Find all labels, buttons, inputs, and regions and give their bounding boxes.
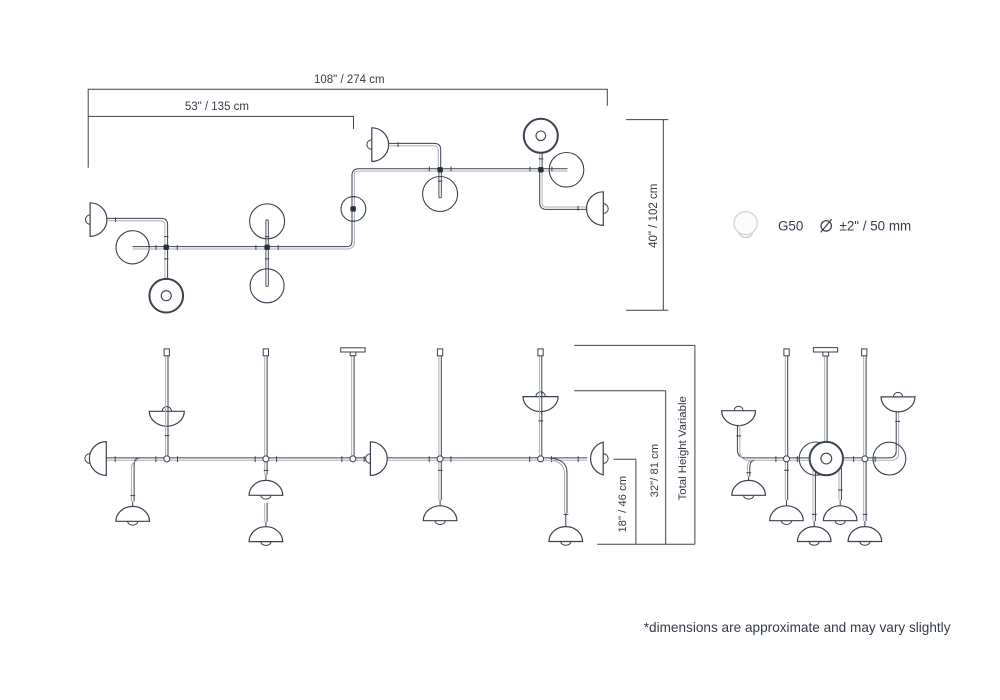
bulb bump S4 (435, 521, 445, 525)
junction ring S4 (437, 456, 443, 462)
arm A1 elbow and drop (tube) (134, 458, 140, 502)
svg-text:±2" / 50 mm: ±2" / 50 mm (840, 219, 912, 234)
stem S5 (tube) (541, 356, 543, 462)
bulb of rail dome E-M (366, 454, 375, 463)
junction ring SSL (784, 456, 790, 462)
tick on stem D (539, 158, 544, 160)
left drop elbow (tube) (750, 460, 754, 476)
canopy collar center (823, 352, 829, 356)
bulb bump A2 (561, 542, 571, 546)
bulb neck S2a (265, 475, 267, 480)
tick on stem a (812, 513, 817, 515)
dome P4 (thick circle with inner) (524, 119, 558, 153)
dome E-M on rail (arc right) (370, 442, 387, 476)
bulb neck stem a (813, 521, 815, 526)
stem S1 over dome (167, 406, 169, 430)
bulb neck A1 (132, 502, 134, 508)
lower rail (tube) (133, 169, 568, 247)
inner circle of center dome (821, 453, 832, 464)
top cap SSR (862, 349, 867, 356)
arm from dome P3 down to junction C (tube) (389, 143, 441, 167)
arm from junction D down-right to dome P5 (tube) (540, 173, 588, 210)
inner circle of dome P4 (536, 131, 546, 141)
stem S2 (tube) (266, 356, 268, 475)
stem SSL (tube) (787, 356, 789, 500)
dimension 18in (614, 459, 636, 544)
globe G3 below junction B (250, 269, 284, 303)
globe G1 on rail (116, 231, 149, 264)
canopy plate (341, 348, 365, 352)
bulb of dome P3 (367, 140, 376, 149)
down dome S4 (423, 506, 457, 521)
svg-text:Total Height Variable: Total Height Variable (677, 396, 689, 500)
rod up through globe G2 (266, 220, 268, 248)
tick on left drop (746, 472, 751, 474)
down dome SSR (848, 527, 882, 542)
tick on arm P1 (115, 217, 117, 222)
connector stem S2 between domes (266, 503, 268, 522)
top cap SSL (784, 349, 789, 356)
canopy stem S3 (tube) (353, 356, 355, 458)
tick on left arm (736, 435, 741, 437)
dome E-L (rail left end, arc left) (89, 442, 106, 476)
tick on stem S1 (165, 435, 170, 437)
FOOTNOTE (644, 620, 951, 635)
globe G4 at rail end (549, 153, 584, 188)
arm from dome P1 to junction A (tube) (107, 218, 168, 279)
stem S1 (tube) (167, 356, 169, 462)
LEGEND (734, 212, 911, 238)
svg-text:18" / 46 cm: 18" / 46 cm (617, 476, 629, 533)
top cap S5 (538, 349, 543, 356)
bulb bump SSL (781, 521, 791, 525)
pendant stem a below center (tube) (814, 470, 816, 521)
stem up from junction D to dome P4 (tube) (541, 153, 543, 170)
dimension total height (574, 345, 695, 544)
down dome SSL (770, 506, 804, 521)
center dome (thick circle) (810, 442, 843, 475)
bulb bump S2a (261, 495, 271, 499)
dome E-R (rail right end, arc left) (591, 442, 604, 475)
down dome a (797, 527, 831, 542)
up dome SL (722, 406, 756, 425)
dome P3 (upper middle, arc right) (372, 128, 389, 162)
bulb bump b (835, 521, 845, 525)
down dome A2 (549, 527, 583, 542)
ticks on lower rail (156, 245, 278, 250)
tick on stem SSR (863, 513, 868, 515)
bulb bump S2b (261, 542, 271, 546)
bulb bump SSR (860, 542, 870, 546)
tick on stem S2 (264, 469, 269, 471)
top cap S2 (263, 349, 268, 356)
svg-text:108" / 274 cm: 108" / 274 cm (314, 74, 385, 86)
junction on riser (350, 206, 356, 212)
G50 bulb icon globe (734, 212, 757, 235)
bulb bump SL2 (744, 495, 754, 499)
diameter symbol (821, 221, 831, 231)
bulb neck SSR (864, 521, 866, 526)
top cap S1 (164, 349, 169, 356)
globe SR right (873, 442, 906, 475)
bulb bump A1 (128, 521, 138, 525)
ticks on upper rail (429, 167, 552, 172)
canopy stem center (tube) (826, 356, 828, 443)
SIDE VIEW (722, 348, 915, 546)
canopy plate center (813, 348, 837, 352)
junction C (437, 167, 443, 173)
down dome SL2 (732, 480, 766, 495)
junction ring S1 (164, 456, 170, 462)
tick on right arm (895, 420, 900, 422)
up dome SR (881, 392, 915, 412)
tick on stem b (838, 489, 843, 491)
bulb of dome E-R (599, 454, 609, 464)
dome P2 (plan of down dome, thick circle) (149, 279, 183, 313)
tick on stem S5 (538, 420, 543, 422)
canopy collar (350, 352, 356, 356)
svg-text:32"/ 81 cm: 32"/ 81 cm (649, 444, 661, 498)
inner circle of dome P2 (161, 291, 171, 301)
dimension 108in bracket (88, 89, 607, 168)
ticks on rods at junction B (265, 237, 269, 259)
junction ring S3 (350, 456, 356, 462)
PLAN VIEW (86, 74, 669, 313)
side rail (tube) (746, 412, 896, 458)
bulb bump a (809, 542, 819, 546)
dimension 32in (574, 391, 666, 545)
tick on arm A1 (130, 495, 135, 497)
globe G2 above junction B (250, 204, 285, 239)
bulb neck S4 (439, 500, 441, 505)
rod down through globe G3 (266, 247, 268, 287)
svg-text:40" / 102 cm: 40" / 102 cm (648, 184, 660, 248)
pendant stem b below center (tube) (840, 468, 842, 501)
stem SSR (tube) (865, 356, 867, 521)
tick on stem SSL (784, 469, 789, 471)
top cap S4 (437, 349, 442, 356)
junction ring S5 (538, 456, 544, 462)
junction A (164, 245, 170, 251)
down dome S2a (249, 480, 283, 495)
dome P5 (right, arc left) (587, 192, 604, 226)
bulb neck SSL (786, 500, 788, 505)
stem S5 over dome (541, 391, 543, 415)
G50 bulb icon base (739, 234, 753, 238)
dimension 53in bracket (88, 116, 353, 128)
arm A2 elbow and drop (tube) (549, 458, 568, 513)
bulb neck A2 (565, 513, 567, 526)
bulb of dome P1 (86, 215, 95, 224)
junction B (264, 245, 270, 251)
tick on rod C (438, 180, 442, 182)
svg-text:*dimensions are approximate an: *dimensions are approximate and may vary… (644, 620, 951, 635)
bulb of dome P5 (599, 204, 609, 214)
ticks on arm A vertical (164, 237, 168, 259)
globe G5 below junction C (423, 177, 458, 212)
up dome on S5 (523, 392, 558, 412)
junction ring S2 (263, 456, 269, 462)
svg-text:53" / 135 cm: 53" / 135 cm (185, 101, 249, 113)
down dome b (823, 506, 857, 521)
front rail (tube) (106, 457, 587, 459)
tick on arm D (577, 206, 579, 211)
down dome A1 (116, 506, 150, 521)
down dome S2b (249, 527, 283, 542)
globe SC behind center dome (799, 442, 832, 475)
bulb neck stem b (839, 500, 841, 505)
rod down through globe G5 (439, 170, 441, 198)
tick on arm P3 (397, 142, 399, 147)
dome P1 (left, arc right) (90, 203, 107, 237)
ticks on riser (350, 197, 356, 221)
ball joint on riser (341, 197, 366, 222)
bulb of dome E-L (85, 454, 94, 463)
stem S4 (tube) (440, 356, 442, 500)
ticks on side rail (776, 456, 875, 462)
ELEVATION VIEW (85, 345, 695, 545)
junction D (538, 167, 544, 173)
left arm from up dome to rail (tube) (737, 425, 745, 458)
bulb neck left drop (748, 477, 750, 481)
junction ring SSR (862, 456, 868, 462)
up dome on S1 (149, 407, 184, 427)
tick on stem S4 (438, 469, 443, 471)
svg-text:G50: G50 (778, 219, 803, 234)
dimension 40in vertical (626, 120, 668, 311)
tick on arm A2 (564, 513, 569, 515)
ticks on front rail (115, 456, 578, 462)
